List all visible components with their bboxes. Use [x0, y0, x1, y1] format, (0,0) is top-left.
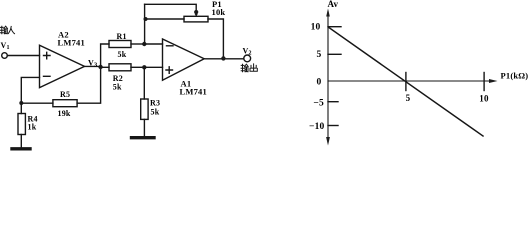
y axis top arrow	[326, 9, 330, 17]
node at R2 / A1 plus / R3	[142, 65, 146, 69]
wire node to R5	[23, 102, 53, 104]
svg-text:−5: −5	[313, 99, 324, 109]
wire node V3 up to R1	[101, 44, 109, 67]
y tick 10	[328, 26, 341, 28]
svg-text:0: 0	[317, 78, 322, 88]
wire A1 minus input	[144, 43, 162, 45]
node junction at R4/R5/A2-	[19, 101, 23, 105]
node at pot feedback / output	[221, 56, 225, 60]
wire up from A1 minus node to top rail	[144, 4, 146, 44]
resistor R4	[18, 114, 25, 135]
svg-text:−10: −10	[309, 122, 325, 132]
wire A2 output	[85, 65, 101, 67]
wire R1 to A1 minus node	[131, 43, 144, 45]
A1 minus sign	[167, 45, 174, 47]
resistor R2	[109, 64, 131, 71]
svg-text:1k: 1k	[28, 123, 37, 132]
y tick 5	[328, 53, 341, 55]
y tick -5	[328, 101, 338, 103]
svg-text:10k: 10k	[212, 7, 226, 17]
wire A1 output to terminal	[204, 58, 243, 60]
pot wiper arrow	[194, 10, 198, 14]
y axis (Av)	[327, 12, 329, 142]
svg-text:5k: 5k	[151, 108, 160, 117]
wire node to R4	[20, 103, 22, 114]
y axis bottom arrow	[326, 137, 330, 146]
node at R1 / A1 minus / pot branch	[142, 42, 146, 46]
svg-text:10: 10	[311, 23, 321, 33]
svg-text:5: 5	[317, 50, 322, 60]
ground (R3)	[132, 136, 155, 139]
wire input to A2 +	[7, 55, 39, 57]
x axis arrow	[489, 79, 498, 83]
A1 plus sign	[166, 67, 173, 74]
wire pot right lead down to A1 output	[208, 19, 223, 58]
op-amp A2	[40, 45, 85, 87]
ground (R4)	[12, 147, 30, 150]
svg-text:LM741: LM741	[58, 38, 85, 48]
A2 minus sign	[44, 75, 51, 77]
A2 plus sign	[44, 52, 51, 59]
output terminal V2	[244, 55, 251, 62]
x axis (P1)	[328, 80, 489, 82]
potentiometer P1	[184, 16, 208, 22]
svg-text:R3: R3	[150, 99, 160, 108]
node pot left lead	[144, 17, 148, 21]
resistor R1	[109, 41, 131, 48]
top rail wire to pot wiper	[145, 4, 197, 11]
wire R5 up to node V3	[77, 67, 101, 103]
svg-text:LM741: LM741	[180, 87, 207, 97]
resistor R3	[141, 99, 148, 119]
op-amp A1	[163, 39, 205, 80]
wire A2 minus input down-left	[21, 77, 39, 103]
gain curve Av vs P1	[329, 28, 483, 137]
node V3	[98, 65, 102, 69]
wire R3 to ground	[143, 119, 145, 136]
resistor R5	[53, 100, 77, 107]
svg-text:5k: 5k	[118, 50, 127, 59]
svg-text:19k: 19k	[58, 109, 71, 118]
svg-text:R1: R1	[117, 32, 127, 41]
label 输出 (output)	[241, 64, 257, 72]
svg-text:5k: 5k	[113, 83, 122, 92]
x tick 10	[483, 73, 485, 91]
svg-text:R5: R5	[60, 90, 70, 99]
svg-text:5: 5	[406, 93, 411, 103]
svg-text:10: 10	[479, 94, 489, 104]
svg-text:Av: Av	[328, 0, 339, 9]
wire node V3 to R2	[101, 66, 109, 68]
wire pot left lead	[146, 18, 185, 20]
wire R4 to ground	[20, 135, 22, 148]
y tick -10	[328, 125, 338, 127]
label 输入 (input)	[0, 26, 14, 34]
wire A1 plus node down to R3	[143, 67, 145, 99]
svg-text:P1(kΩ): P1(kΩ)	[501, 71, 528, 81]
wire A1 plus input	[144, 66, 162, 68]
input terminal V1	[2, 53, 8, 59]
wire R2 to A1 plus node	[131, 66, 144, 68]
x tick 5	[405, 73, 407, 91]
